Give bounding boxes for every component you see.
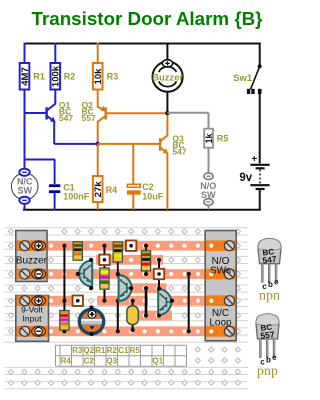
svg-text:1k: 1k: [204, 133, 214, 144]
svg-text:557: 557: [82, 113, 96, 123]
svg-text:4M7: 4M7: [20, 67, 31, 85]
svg-text:R4: R4: [106, 185, 118, 195]
svg-text:R5: R5: [130, 346, 141, 355]
svg-text:Sw1: Sw1: [233, 73, 253, 84]
svg-text:Input: Input: [23, 314, 43, 324]
svg-text:R1: R1: [33, 72, 45, 82]
svg-text:Buzzer: Buzzer: [16, 255, 48, 266]
svg-text:e: e: [274, 278, 279, 287]
svg-text:547: 547: [59, 113, 73, 123]
svg-text:SWs: SWs: [210, 266, 231, 277]
svg-text:Q1: Q1: [152, 357, 163, 366]
svg-text:npn: npn: [259, 289, 280, 304]
svg-text:R3: R3: [72, 346, 83, 355]
svg-text:pnp: pnp: [257, 364, 278, 379]
svg-text:100k: 100k: [51, 65, 62, 87]
svg-text:+: +: [251, 154, 257, 165]
svg-text:27k: 27k: [93, 181, 104, 198]
svg-text:R1: R1: [95, 346, 106, 355]
svg-text:547: 547: [172, 147, 186, 157]
svg-text:Loop: Loop: [209, 318, 232, 329]
svg-text:Q3: Q3: [106, 357, 117, 366]
svg-text:C1: C1: [118, 346, 129, 355]
svg-text:Q2: Q2: [83, 346, 94, 355]
svg-text:100nF: 100nF: [63, 192, 90, 202]
svg-text:SW: SW: [201, 190, 216, 200]
svg-text:e: e: [272, 353, 277, 362]
svg-text:Buzzer: Buzzer: [152, 72, 183, 83]
svg-text:R3: R3: [107, 72, 119, 82]
svg-text:10uF: 10uF: [142, 192, 164, 202]
svg-text:9v: 9v: [239, 172, 252, 184]
svg-text:Transistor Door Alarm {B}: Transistor Door Alarm {B}: [32, 8, 264, 29]
svg-text:C2: C2: [84, 357, 95, 366]
svg-text:SW: SW: [17, 186, 32, 196]
svg-text:R2: R2: [64, 72, 76, 82]
svg-text:R5: R5: [217, 134, 229, 144]
svg-text:R2: R2: [107, 346, 118, 355]
svg-text:C2: C2: [142, 182, 154, 192]
svg-text:R4: R4: [61, 357, 72, 366]
svg-text:10k: 10k: [93, 68, 104, 85]
